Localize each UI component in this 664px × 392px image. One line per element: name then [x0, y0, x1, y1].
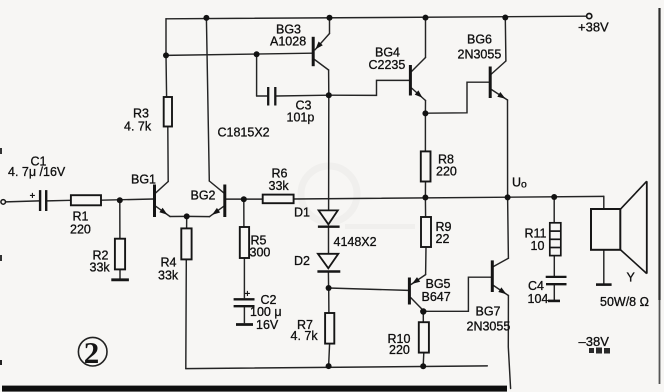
svg-text:4148X2: 4148X2	[334, 235, 377, 249]
svg-text:300: 300	[250, 246, 271, 260]
svg-text:U: U	[512, 176, 521, 190]
svg-text:16V: 16V	[256, 318, 279, 332]
svg-text:C2235: C2235	[369, 58, 406, 72]
svg-text:BG1: BG1	[131, 173, 156, 187]
svg-text:BG5: BG5	[426, 277, 451, 291]
svg-text:D1: D1	[294, 206, 310, 220]
svg-text:B647: B647	[422, 290, 451, 304]
svg-text:BG2: BG2	[191, 189, 216, 203]
svg-text:33k: 33k	[90, 261, 111, 275]
svg-text:50W/8 Ω: 50W/8 Ω	[600, 295, 649, 309]
svg-text:–38V: –38V	[579, 334, 610, 349]
svg-text:33k: 33k	[158, 269, 179, 283]
svg-text:o: o	[521, 179, 527, 191]
svg-text:R1: R1	[73, 210, 89, 224]
svg-text:BG6: BG6	[467, 33, 492, 47]
svg-text:2: 2	[84, 335, 100, 370]
svg-text:101p: 101p	[287, 111, 315, 125]
svg-text:2N3055: 2N3055	[458, 48, 502, 62]
svg-text:R4: R4	[161, 256, 177, 270]
svg-text:2N3055: 2N3055	[467, 320, 511, 334]
svg-text:A1028: A1028	[270, 35, 306, 49]
svg-text:220: 220	[436, 165, 457, 179]
svg-text:100 μ: 100 μ	[250, 305, 282, 319]
svg-text:33k: 33k	[269, 179, 290, 193]
svg-text:+38V: +38V	[578, 20, 609, 35]
svg-text:C4: C4	[528, 279, 544, 293]
svg-text:4. 7μ /16V: 4. 7μ /16V	[8, 165, 66, 179]
svg-text:220: 220	[389, 343, 410, 357]
svg-text:10: 10	[531, 239, 545, 253]
svg-text:C1815X2: C1815X2	[218, 126, 270, 140]
svg-text:104: 104	[528, 292, 549, 306]
svg-text:220: 220	[70, 223, 91, 237]
svg-text:D2: D2	[294, 254, 310, 268]
svg-text:4. 7k: 4. 7k	[291, 329, 319, 343]
svg-text:R3: R3	[133, 107, 149, 121]
svg-text:Y: Y	[627, 271, 636, 285]
svg-text:+: +	[245, 289, 251, 300]
svg-text:+: +	[30, 191, 36, 202]
svg-text:BG7: BG7	[476, 305, 501, 319]
svg-text:4. 7k: 4. 7k	[124, 120, 152, 134]
svg-text:22: 22	[436, 232, 450, 246]
